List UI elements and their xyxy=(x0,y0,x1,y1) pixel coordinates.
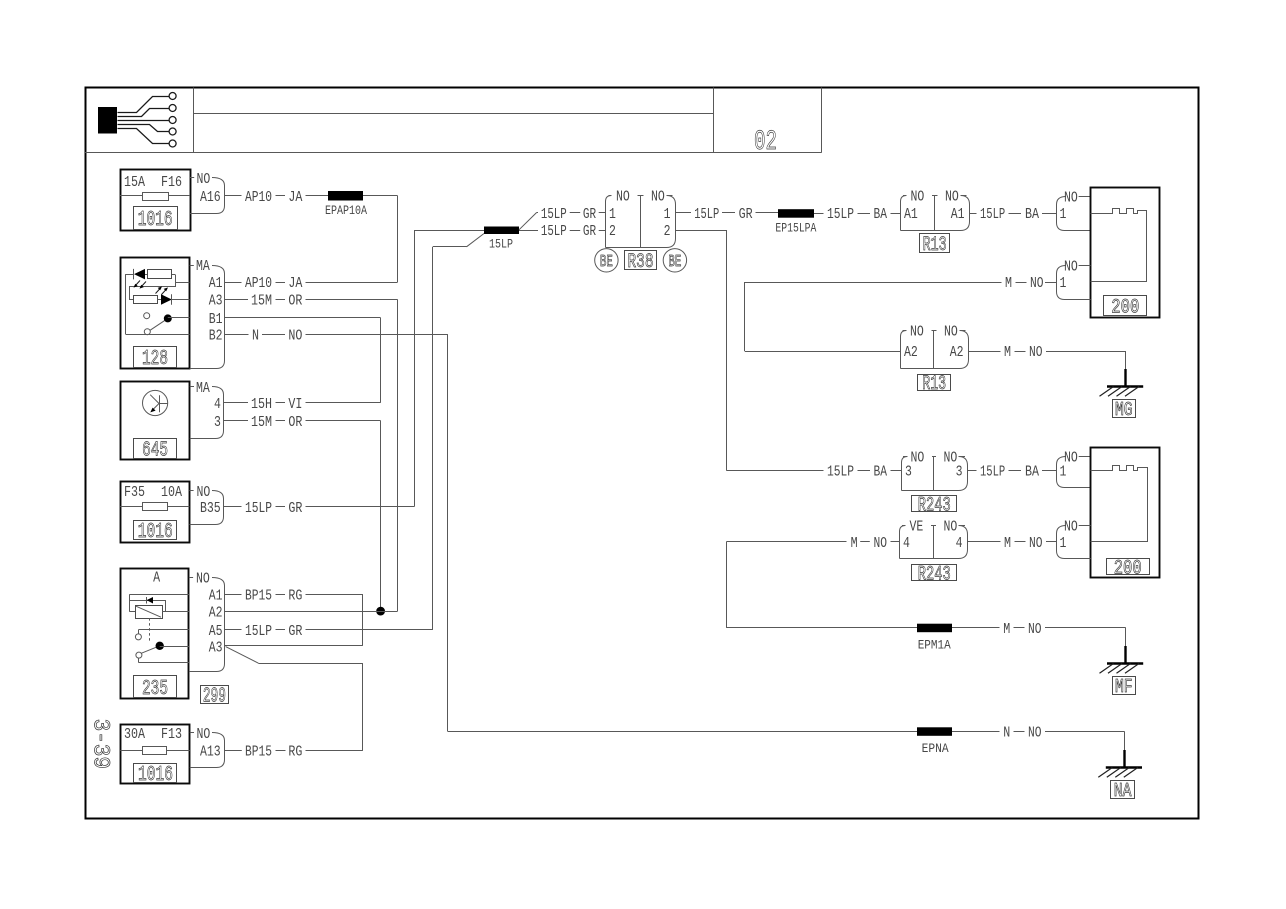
svg-text:15LP: 15LP xyxy=(541,206,567,223)
svg-text:2: 2 xyxy=(609,223,616,240)
svg-text:EPM1A: EPM1A xyxy=(918,638,951,652)
svg-text:MF: MF xyxy=(1115,676,1133,698)
svg-text:15LP: 15LP xyxy=(827,463,854,480)
svg-text:GR: GR xyxy=(288,623,302,640)
svg-text:A13: A13 xyxy=(200,744,221,761)
svg-text:OR: OR xyxy=(288,293,302,310)
svg-text:1016: 1016 xyxy=(138,209,173,232)
svg-text:NO: NO xyxy=(197,726,211,743)
svg-text:02: 02 xyxy=(754,127,777,158)
svg-text:NO: NO xyxy=(910,324,924,341)
svg-text:4: 4 xyxy=(903,535,910,552)
svg-text:MA: MA xyxy=(196,258,210,275)
svg-text:B2: B2 xyxy=(209,328,223,345)
svg-text:F13: F13 xyxy=(161,726,182,743)
svg-text:15M: 15M xyxy=(251,293,272,310)
svg-text:4: 4 xyxy=(956,535,963,552)
svg-text:A2: A2 xyxy=(209,604,223,621)
svg-text:15A: 15A xyxy=(124,174,145,191)
svg-text:200: 200 xyxy=(1111,296,1139,319)
svg-text:NO: NO xyxy=(196,570,210,587)
svg-text:NO: NO xyxy=(1029,535,1043,552)
svg-text:1016: 1016 xyxy=(138,764,173,787)
svg-text:BE: BE xyxy=(600,253,613,272)
svg-text:3-39: 3-39 xyxy=(88,719,114,769)
svg-text:128: 128 xyxy=(142,348,168,371)
svg-text:R13: R13 xyxy=(922,373,946,396)
svg-text:MG: MG xyxy=(1115,399,1133,421)
svg-text:15LP: 15LP xyxy=(694,206,719,223)
svg-text:A3: A3 xyxy=(209,293,223,310)
svg-text:15LP: 15LP xyxy=(489,238,513,252)
svg-text:NO: NO xyxy=(616,189,630,206)
svg-text:N: N xyxy=(1003,725,1010,742)
svg-text:235: 235 xyxy=(142,678,168,701)
svg-text:3: 3 xyxy=(214,414,221,431)
svg-text:GR: GR xyxy=(739,206,753,223)
svg-text:1: 1 xyxy=(664,206,671,223)
svg-text:EPNA: EPNA xyxy=(922,742,949,756)
svg-text:15LP: 15LP xyxy=(980,206,1005,223)
svg-text:A2: A2 xyxy=(950,344,964,361)
svg-text:RG: RG xyxy=(288,588,302,605)
svg-text:645: 645 xyxy=(142,440,168,463)
svg-text:N: N xyxy=(252,328,259,345)
svg-text:EPAP10A: EPAP10A xyxy=(325,204,367,218)
svg-text:JA: JA xyxy=(288,189,302,206)
svg-text:A3: A3 xyxy=(209,639,223,656)
svg-text:2: 2 xyxy=(664,223,671,240)
svg-text:BE: BE xyxy=(668,253,681,272)
svg-text:A1: A1 xyxy=(209,588,223,605)
svg-text:NO: NO xyxy=(911,189,925,206)
svg-text:NO: NO xyxy=(874,535,888,552)
svg-text:BA: BA xyxy=(874,206,888,223)
svg-text:BP15: BP15 xyxy=(245,744,272,761)
svg-text:OR: OR xyxy=(288,414,302,431)
svg-text:M: M xyxy=(851,535,858,552)
svg-text:4: 4 xyxy=(214,396,221,413)
svg-text:EP15LPA: EP15LPA xyxy=(775,221,816,235)
svg-text:NO: NO xyxy=(1028,621,1042,638)
svg-text:3: 3 xyxy=(905,463,912,480)
svg-text:AP10: AP10 xyxy=(245,189,272,206)
svg-text:R38: R38 xyxy=(628,251,654,274)
svg-text:BP15: BP15 xyxy=(245,588,272,605)
svg-text:A2: A2 xyxy=(904,344,918,361)
svg-text:M: M xyxy=(1003,621,1010,638)
svg-text:1: 1 xyxy=(609,206,616,223)
svg-text:NA: NA xyxy=(1114,780,1132,802)
svg-text:A1: A1 xyxy=(904,206,918,223)
svg-text:JA: JA xyxy=(288,275,302,292)
svg-text:VE: VE xyxy=(910,519,924,536)
svg-text:BA: BA xyxy=(874,463,888,480)
svg-text:BA: BA xyxy=(1025,206,1039,223)
svg-text:RG: RG xyxy=(288,744,302,761)
svg-text:M: M xyxy=(1004,344,1011,361)
svg-text:B35: B35 xyxy=(200,500,221,517)
svg-text:NO: NO xyxy=(288,328,302,345)
svg-text:F35: F35 xyxy=(124,484,145,501)
svg-text:VI: VI xyxy=(288,396,302,413)
svg-text:A1: A1 xyxy=(951,206,965,223)
svg-text:A: A xyxy=(153,570,160,587)
svg-text:1: 1 xyxy=(1060,275,1067,292)
svg-text:15LP: 15LP xyxy=(980,463,1005,480)
svg-text:15LP: 15LP xyxy=(245,623,272,640)
svg-text:B1: B1 xyxy=(209,311,223,328)
svg-text:NO: NO xyxy=(197,484,211,501)
svg-text:R243: R243 xyxy=(918,563,951,586)
svg-text:M: M xyxy=(1005,275,1012,292)
svg-text:GR: GR xyxy=(583,206,596,223)
svg-text:BA: BA xyxy=(1025,463,1039,480)
svg-text:M: M xyxy=(1004,535,1011,552)
svg-text:15H: 15H xyxy=(251,396,272,413)
svg-text:R13: R13 xyxy=(923,234,947,257)
svg-text:NO: NO xyxy=(944,519,958,536)
svg-text:1: 1 xyxy=(1060,206,1067,223)
svg-text:3: 3 xyxy=(956,463,963,480)
svg-text:A5: A5 xyxy=(209,623,223,640)
svg-text:NO: NO xyxy=(945,189,959,206)
svg-text:15LP: 15LP xyxy=(827,206,854,223)
svg-text:R243: R243 xyxy=(918,494,951,517)
svg-text:NO: NO xyxy=(1064,519,1078,536)
svg-text:A1: A1 xyxy=(209,275,223,292)
svg-text:NO: NO xyxy=(1064,190,1078,207)
svg-text:1: 1 xyxy=(1060,463,1067,480)
svg-text:NO: NO xyxy=(197,171,211,188)
svg-text:MA: MA xyxy=(196,380,210,397)
svg-text:A16: A16 xyxy=(200,189,221,206)
svg-text:NO: NO xyxy=(1064,259,1078,276)
svg-text:15M: 15M xyxy=(251,414,272,431)
svg-text:NO: NO xyxy=(944,324,958,341)
svg-text:1016: 1016 xyxy=(138,521,173,544)
svg-text:NO: NO xyxy=(651,189,665,206)
svg-text:NO: NO xyxy=(1030,275,1044,292)
svg-text:NO: NO xyxy=(911,450,925,467)
svg-text:GR: GR xyxy=(288,500,302,517)
svg-text:NO: NO xyxy=(1029,344,1043,361)
svg-text:F16: F16 xyxy=(161,174,182,191)
svg-text:10A: 10A xyxy=(161,484,182,501)
svg-text:299: 299 xyxy=(203,686,226,709)
svg-text:GR: GR xyxy=(583,223,596,240)
svg-text:1: 1 xyxy=(1060,535,1067,552)
svg-text:30A: 30A xyxy=(124,726,145,743)
svg-text:15LP: 15LP xyxy=(541,223,567,240)
svg-text:15LP: 15LP xyxy=(245,500,272,517)
svg-text:NO: NO xyxy=(1028,725,1042,742)
svg-text:AP10: AP10 xyxy=(245,275,272,292)
svg-text:200: 200 xyxy=(1114,557,1142,580)
